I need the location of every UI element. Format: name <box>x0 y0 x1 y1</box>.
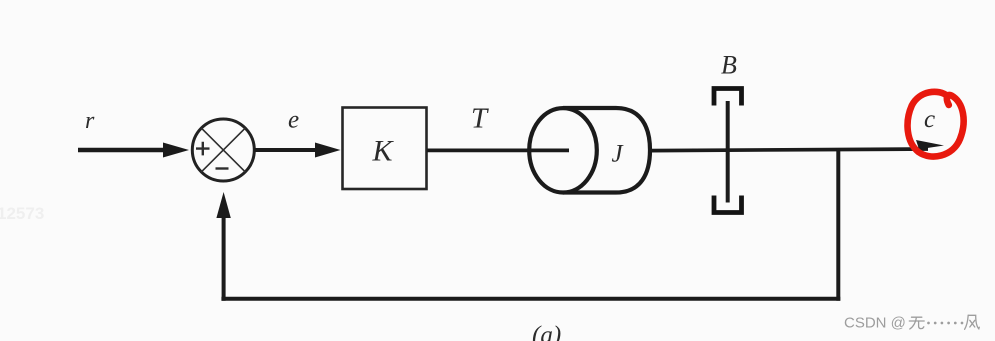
input arrowhead <box>163 143 189 158</box>
svg-text:(a): (a) <box>532 322 561 341</box>
feedback wire vertical left <box>222 215 226 301</box>
svg-text:CSDN @: CSDN @ <box>844 315 906 332</box>
summing junction circle <box>192 119 254 181</box>
summing junction X cross <box>201 128 245 172</box>
CSDN watermark dots <box>927 322 963 325</box>
svg-text:r: r <box>85 108 95 134</box>
CSDN watermark hanzi wu (drawn) <box>909 317 924 329</box>
minus sign <box>216 167 229 169</box>
inertia J cylinder body <box>563 108 650 193</box>
feedback arrowhead into summing junction <box>216 192 230 218</box>
CSDN watermark hanzi feng (drawn) <box>965 315 980 329</box>
plus sign <box>196 142 210 156</box>
svg-text:T: T <box>471 103 489 135</box>
shaft wire to output <box>650 149 928 151</box>
svg-text:J: J <box>612 141 625 168</box>
block K <box>343 108 427 190</box>
svg-text:12573: 12573 <box>0 204 44 223</box>
feedback wire bottom horizontal <box>221 297 840 301</box>
feedback wire vertical right <box>836 148 840 301</box>
output arrowhead <box>916 140 944 149</box>
wire e <box>255 148 318 152</box>
damper B top bracket <box>714 89 742 106</box>
red annotation circle around c <box>908 92 964 157</box>
svg-text:K: K <box>372 135 395 168</box>
svg-text:e: e <box>288 107 299 134</box>
svg-text:c: c <box>924 106 935 133</box>
svg-text:B: B <box>721 51 737 80</box>
inertia J left ellipse <box>529 108 597 192</box>
wire T into cylinder <box>427 149 569 153</box>
damper B shaft vertical <box>726 101 730 203</box>
damper B bottom bracket <box>714 196 742 213</box>
arrowhead into K <box>315 143 341 158</box>
input arrow r wire <box>78 148 166 153</box>
